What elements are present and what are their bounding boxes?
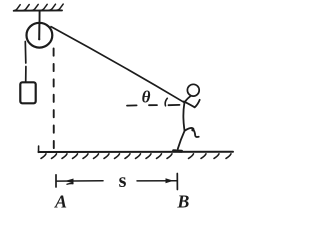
- pulley axle line: [38, 24, 40, 40]
- svg-text:s: s: [119, 170, 127, 192]
- vertical dashed line from pulley to ground: [53, 49, 55, 153]
- svg-text:θ: θ: [142, 87, 151, 106]
- point label B: [176, 192, 189, 212]
- svg-text:B: B: [176, 192, 189, 212]
- ground line: [39, 146, 234, 152]
- angle arc: [165, 98, 167, 106]
- person front leg: [178, 131, 185, 149]
- person front foot: [174, 149, 182, 152]
- person back leg: [185, 128, 199, 137]
- dimension right tick: [176, 174, 178, 190]
- horizontal dashed angle reference line: [127, 104, 180, 107]
- weight block: [20, 82, 35, 103]
- dimension left arrow line: [57, 179, 104, 184]
- distance label s: [119, 170, 127, 192]
- rope to hanging weight: [24, 42, 27, 83]
- dimension left tick: [55, 175, 57, 187]
- point label A: [54, 192, 67, 212]
- ground hatching: [41, 154, 231, 159]
- rope from pulley to person: [51, 27, 184, 103]
- pulley wheel: [27, 23, 53, 48]
- person torso: [183, 96, 190, 131]
- svg-text:A: A: [54, 192, 67, 212]
- ceiling: [14, 9, 62, 11]
- dimension right arrow line: [137, 178, 177, 183]
- person head: [187, 84, 199, 96]
- person arm: [184, 100, 200, 108]
- pulley support rod: [39, 11, 41, 24]
- angle label theta: [142, 87, 151, 106]
- stray pen mark: [67, 183, 73, 186]
- ceiling hatching: [14, 4, 64, 11]
